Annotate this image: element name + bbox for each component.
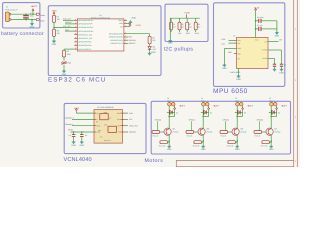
svg-text:U3 VCNL4040M3OE: U3 VCNL4040M3OE [97,106,114,108]
IMU U2 left pin names [237,40,241,42]
diode D6 label [278,112,280,114]
svg-text:Cathode_T: Cathode_T [65,117,74,119]
flyback diode D5 cell 3 [235,111,243,113]
svg-text:10K: 10K [57,33,60,35]
svg-text:18: 18 [75,44,77,46]
net label GPIO18 [129,39,135,41]
hierarchical pin Batt- [36,19,40,21]
svg-text:C4: C4 [69,134,71,136]
net label SDA2 [65,29,69,31]
svg-text:4K7: 4K7 [173,26,176,28]
ground cell 3 [236,145,238,147]
svg-text:GND: GND [201,148,206,151]
title block outline [176,160,293,167]
svg-text:Q3: Q3 [240,128,243,130]
net label Cathode_L [65,123,74,125]
wire BAT+ from J1 pin1 [11,13,36,15]
power label +3.3V right of U1 [129,23,131,26]
resistor R4 [148,36,151,44]
svg-text:R10 1K: R10 1K [153,135,159,137]
capacitor C1 connection wires [25,14,27,16]
motor connector J6 label [269,98,271,100]
connector J1 reference label [6,5,9,8]
svg-text:GND: GND [237,48,241,50]
svg-text:GPIO17: GPIO17 [129,43,135,45]
U3 right pin wires [123,112,126,114]
flyback diode D3 cell 1 [167,111,175,113]
hierarchical sheet: battery connector [3,3,40,28]
ground symbol in battery sheet [31,20,33,22]
svg-text:GPIO19/TX0/MTD: GPIO19/TX0/MTD [109,36,123,38]
IMU U2 value label MPU-6050 [230,72,241,74]
svg-text:C5: C5 [85,134,87,136]
ground cell 1 [168,145,170,147]
svg-text:+3.3V: +3.3V [135,24,140,27]
svg-text:SCL: SCL [117,119,120,121]
IMU U2 reference [233,35,235,37]
ground below C5 [81,137,83,141]
svg-text:GND: GND [279,72,284,75]
flyback diode D4 cell 2 [201,111,209,113]
svg-text:VCNL_INT: VCNL_INT [129,125,138,127]
proximity sensor U3 reference [97,106,114,108]
page frame right double border [293,0,295,167]
ground below C4 [73,137,75,141]
svg-text:GND: GND [132,17,137,20]
I2C rail wire [170,17,200,19]
net label IR Cathode [129,131,136,133]
wire R1 to R2 [53,22,55,29]
transistor Q3 cell 3 [232,128,239,135]
svg-text:VCC: VCC [255,39,259,41]
svg-text:CLKIN: CLKIN [263,58,268,60]
power label +BATT cell 4 [281,105,287,108]
svg-text:+BATT: +BATT [247,105,253,108]
diode D4 label [210,112,212,114]
svg-text:Q4: Q4 [274,128,277,130]
svg-text:GPIO20: GPIO20 [155,119,161,121]
gate resistor R12 cell 3 [220,131,228,134]
MCU U1 left pin stubs [74,19,77,21]
svg-text:2N7002: 2N7002 [206,131,212,133]
wire BAT- from J1 pin2 [11,19,36,21]
svg-text:INT: INT [237,58,240,60]
transistor Q4 cell 4 [266,128,273,135]
svg-text:INT: INT [265,41,268,43]
power label +BATT cell 3 [247,105,253,108]
svg-text:GND: GND [62,73,67,76]
svg-text:SDA: SDA [237,40,241,42]
svg-text:SDA: SDA [186,33,190,35]
motor connector J3 pins [168,102,172,106]
svg-text:+BATT: +BATT [281,105,287,108]
transistor Q3 label [240,128,243,130]
svg-text:100K: 100K [67,53,71,55]
svg-text:19: 19 [75,47,77,49]
svg-text:100: 100 [152,40,155,42]
U3 left pin wires [72,118,94,120]
gate wire cell 2 [190,121,192,130]
resistor R5 pullup [170,18,172,22]
svg-text:GPIO23: GPIO23 [257,119,263,121]
svg-text:R2: R2 [57,30,59,32]
svg-text:+BATT: +BATT [179,105,185,108]
svg-text:GND: GND [236,78,241,81]
diode D5 label [244,112,246,114]
svg-text:R15 10K: R15 10K [193,145,200,147]
resistor R6 pullup [179,18,181,22]
svg-text:2N7002: 2N7002 [240,131,246,133]
ground below C9 [274,66,276,67]
wires motor cell 1 [168,106,170,128]
svg-text:IRED: IRED [104,111,108,113]
transistor Q4 label [274,128,277,130]
svg-text:R12 1K: R12 1K [221,135,227,137]
svg-text:GPIO18: GPIO18 [129,39,135,41]
svg-text:14: 14 [75,29,77,31]
svg-text:+3.3V: +3.3V [184,12,190,15]
capacitor C5 [81,132,83,135]
transistor Q2 cell 2 [198,128,205,135]
svg-text:+3.3V: +3.3V [254,6,260,9]
motor connector J6 pins [270,102,274,106]
flyback diode D6 cell 4 [269,111,277,113]
wire to ground left I2C [169,18,171,39]
U2 right pin INT wire [268,41,279,43]
svg-text:17: 17 [75,40,77,42]
svg-text:SCL_ALT: SCL_ALT [63,25,71,27]
capacitor C1 label [30,13,32,15]
wire caps to ground [276,21,278,31]
svg-text:D5: D5 [244,112,246,114]
power label +3.3V I2C [184,12,190,15]
svg-text:+BATT: +BATT [213,105,219,108]
proximity sensor U3 body [94,110,123,144]
ground below C8 [281,66,283,67]
svg-text:VCNL4040: VCNL4040 [64,157,92,163]
source wire cell 2 [202,135,204,145]
net label AD0 left of U2 [228,51,232,53]
svg-text:SCL: SCL [222,43,226,45]
power flag +BATT [31,5,38,8]
motor connector J3 label [167,98,169,100]
ground on U2 left pin [224,48,236,50]
resistor R2 [53,29,56,36]
svg-text:AD0: AD0 [237,53,240,55]
MCU U1 right pin stubs [124,19,127,21]
svg-text:R7: R7 [189,24,191,26]
svg-text:J4: J4 [201,98,203,100]
svg-text:SCL: SCL [129,119,133,121]
source wire cell 1 [168,135,170,145]
U3 internal photodiode box [108,126,116,132]
net labels under pullups [178,33,182,35]
svg-text:GPIO22: GPIO22 [223,119,229,121]
gate resistor R11 cell 2 [186,131,194,134]
svg-text:J6: J6 [269,98,271,100]
svg-text:Batt+: Batt+ [41,14,46,16]
svg-text:GPIO9/FSPI/PU2: GPIO9/FSPI/PU2 [78,45,91,47]
source wire cell 4 [270,135,272,145]
diode D3 label [176,112,178,114]
wire from U1 to LED chain [127,33,150,35]
schematic background [0,0,300,167]
net label SCL left of U2 [222,43,226,45]
hierarchical sheet: Motors [151,101,290,154]
capacitor C9 [273,64,276,66]
ground below LED D2 [149,49,151,51]
ground below U2 [238,69,240,75]
svg-text:J3: J3 [167,98,169,100]
svg-text:GPIO1/XTAL_32K: GPIO1/XTAL_32K [78,38,92,40]
power label +3V3 [52,10,57,13]
svg-text:SDA: SDA [222,39,226,41]
svg-text:D4: D4 [210,112,212,114]
power label +BATT cell 1 [179,105,185,108]
svg-text:GPIO21: GPIO21 [189,119,195,121]
svg-text:INT: INT [129,36,132,38]
svg-text:GPIO4/MTMS/FSPI: GPIO4/MTMS/FSPI [78,20,93,22]
resistor R7 pullup [186,18,188,22]
svg-text:GND: GND [119,23,123,25]
svg-text:GND: GND [167,148,172,151]
svg-text:GND: GND [235,148,240,151]
net label INT [129,36,132,38]
svg-text:GND: GND [168,42,173,45]
svg-text:D3: D3 [176,112,178,114]
wires motor cell 4 [270,106,272,128]
hierarchical pin Batt+ [36,13,40,15]
frame section tick marks [295,28,297,31]
svg-text:FSYNC: FSYNC [262,49,268,51]
svg-text:INT: INT [279,39,282,41]
svg-text:Cathode: Cathode [129,131,136,133]
hierarchical sheet: ESP32 C6 MCU [48,6,161,76]
power label +3.3V VCNL [68,129,73,131]
svg-text:U1: U1 [99,15,101,17]
svg-text:GPIO0/XTAL_32K: GPIO0/XTAL_32K [78,34,92,36]
svg-text:SCL: SCL [237,42,240,44]
svg-text:Q1: Q1 [172,128,175,130]
svg-text:GPIO8/FSPI/PU1: GPIO8/FSPI/PU1 [78,41,91,43]
ground below R2 [53,36,55,39]
svg-text:SCL: SCL [178,33,182,35]
svg-text:10K: 10K [57,19,60,21]
source wire cell 3 [236,135,238,145]
net label GPIO15 [65,22,71,24]
ground right of caps [276,31,278,33]
svg-text:R8: R8 [197,24,199,26]
svg-text:SDA: SDA [129,112,133,114]
net label GPIO17 [129,43,135,45]
net label INT right of U2 [279,39,282,41]
capacitor C8 [280,64,283,66]
U2 right pin to capacitor C8 [268,49,282,51]
svg-text:11: 11 [75,18,77,20]
resistor R8 pullup [195,18,197,22]
net label Cathode_T [65,117,74,119]
motor connector J5 pins [236,102,240,106]
svg-text:4K7: 4K7 [189,26,192,28]
U2 left pin wires SDA SCL [229,39,235,41]
connector J1 value label [5,9,18,11]
capacitor C6 [259,19,261,23]
svg-text:GPIO22/TX1/PX: GPIO22/TX1/PX [110,39,123,41]
svg-text:+BATT: +BATT [31,5,38,8]
svg-text:GND: GND [151,51,156,54]
ground below SW1 [63,65,65,70]
svg-text:GND: GND [80,144,85,147]
svg-text:GPIO23/TX1/TX: GPIO23/TX1/TX [111,43,124,45]
net label SDA right of U3 [129,112,133,114]
svg-text:SDA_ALT: SDA_ALT [63,18,71,20]
connector J1 body [5,12,9,21]
pulldown resistor R17 cell 4 [262,141,270,144]
MCU U1 right pin numbers [125,18,126,20]
U3 internal extra labels [104,111,108,113]
wires motor cell 3 [236,106,238,128]
power label +3.3V MPU [254,6,260,9]
svg-text:PWR WAGO 2P: PWR WAGO 2P [5,9,18,11]
svg-text:GND: GND [71,144,76,147]
svg-text:13: 13 [75,26,77,28]
motor connector J4 pins [202,102,206,106]
svg-text:2N7002: 2N7002 [274,131,280,133]
svg-text:+3.3V: +3.3V [68,129,73,131]
svg-text:Cathode_L: Cathode_L [65,123,74,125]
U3 internal pin name smudges [97,112,99,114]
svg-text:Batt-: Batt- [41,20,45,22]
svg-text:C8: C8 [284,64,286,66]
U3 internal LED box [100,114,108,120]
svg-text:VDD: VDD [97,125,101,127]
LED D2 [149,44,151,47]
gate wire cell 4 [258,121,260,130]
IMU U2 top pin name VCC [255,39,259,41]
wire +3.3V down to U2 [255,12,257,38]
svg-text:GND: GND [269,148,274,151]
svg-text:VBUS: VBUS [118,20,123,22]
svg-text:SW1: SW1 [67,62,71,64]
svg-text:12: 12 [75,22,77,24]
svg-text:R11 1K: R11 1K [187,135,193,137]
pulldown resistor R14 cell 1 [160,141,168,144]
svg-text:GPIO5/MTDI/FSPI: GPIO5/MTDI/FSPI [78,23,92,25]
svg-text:C6 100n: C6 100n [257,16,263,18]
capacitor C7 [259,27,261,31]
U2 right pin to capacitor C9 [268,57,275,59]
svg-text:GPIO15: GPIO15 [65,22,71,24]
svg-text:R5: R5 [173,24,175,26]
power label +3V3 top left of U3 [74,107,78,109]
svg-text:ESP32 C6 MCU: ESP32 C6 MCU [48,77,107,84]
svg-text:R14 10K: R14 10K [159,145,166,147]
svg-text:SCL2: SCL2 [195,33,200,35]
svg-text:3V3: 3V3 [120,26,123,28]
motor connector J5 label [235,98,237,100]
transistor Q1 cell 1 [164,128,171,135]
push button SW1 [63,57,65,61]
pulldown resistor R16 cell 3 [228,141,236,144]
svg-text:C7 10u: C7 10u [257,24,263,26]
net label GPIO21 cell 2 [189,119,195,121]
svg-text:R3: R3 [67,51,69,53]
svg-text:GND: GND [222,67,227,70]
svg-text:4K7: 4K7 [197,26,200,28]
svg-text:A K: A K [109,117,111,119]
svg-text:J5: J5 [235,98,237,100]
hierarchical sheet: I2C pullups [165,4,208,41]
MCU U1 left pin names [78,20,93,22]
svg-text:2N7002: 2N7002 [172,131,178,133]
svg-text:GPIO7/MTDO/FSPI: GPIO7/MTDO/FSPI [78,30,93,32]
svg-text:GND: GND [97,131,101,133]
ground cell 4 [270,145,272,147]
gate wire cell 3 [224,121,226,130]
svg-text:R17 10K: R17 10K [261,145,268,147]
svg-text:AD0: AD0 [228,51,232,53]
U3 pin ticks [94,112,96,114]
svg-text:15: 15 [75,33,77,35]
svg-text:4K7: 4K7 [181,26,184,28]
gate resistor R10 cell 1 [152,131,160,134]
svg-text:U2: U2 [233,35,235,37]
gate resistor R13 cell 4 [254,131,262,134]
capacitor C1 plates [23,16,29,18]
svg-text:GND: GND [275,35,280,38]
svg-text:LED: LED [153,49,157,51]
MCU U1 body [77,19,124,51]
net label GPIO22 cell 3 [223,119,229,121]
net label SCL_ALT [63,25,71,27]
svg-text:100u: 100u [30,15,34,17]
capacitor C7 wire [256,28,259,30]
svg-text:GND: GND [52,43,57,46]
power label +BATT cell 2 [213,105,219,108]
svg-text:GPIO18/RX0/MTD: GPIO18/RX0/MTD [109,33,123,35]
svg-text:R4: R4 [152,37,154,39]
svg-text:16: 16 [75,36,77,38]
svg-text:MPU 6050: MPU 6050 [213,88,248,95]
IMU U2 body [237,38,269,69]
ground at U1 right pin 2 [127,23,131,25]
motor connector J4 label [201,98,203,100]
IMU U2 right pin names [265,41,268,43]
transistor Q2 label [206,128,209,130]
MCU U1 right pin names [118,20,123,22]
net label SCL right of U3 [129,119,133,121]
svg-text:R6: R6 [181,24,183,26]
svg-text:INT: INT [100,136,103,138]
pulldown resistor R15 cell 2 [194,141,202,144]
capacitor C4 [73,132,75,135]
connector J1 pin 2 [9,19,11,21]
net label SDA_ALT [63,18,71,20]
svg-text:D2: D2 [153,46,155,48]
net label SDA left of U2 [222,39,226,41]
MCU U1 reference [99,15,101,17]
svg-text:C1: C1 [30,13,32,15]
svg-text:SDA: SDA [117,112,121,114]
junction R1-R2 [53,27,55,29]
svg-text:GPIO6/MTCK/FSPI: GPIO6/MTCK/FSPI [78,27,93,29]
svg-text:I2C pullups: I2C pullups [164,47,194,53]
resistor R3 below U1 [64,48,74,50]
svg-text:battery connector: battery connector [1,31,44,37]
gate wire cell 1 [156,121,158,130]
resistor R1 [53,15,56,22]
svg-text:GND: GND [30,26,35,29]
